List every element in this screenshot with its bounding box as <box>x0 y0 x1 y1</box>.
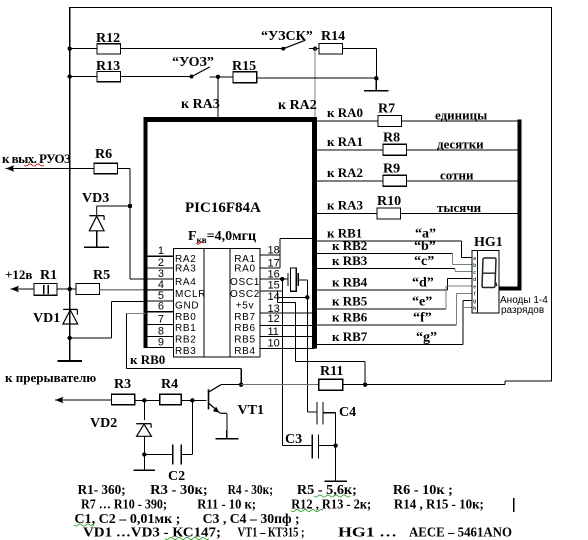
display HG1 digit <box>482 258 496 288</box>
svg-text:R1- 360;: R1- 360; <box>78 483 126 498</box>
wire rail к RB3 <box>317 268 455 270</box>
svg-text:g: g <box>473 299 476 305</box>
ground (VD3) <box>96 231 98 248</box>
wire <box>181 454 192 456</box>
pin 16 stub (OSC1) <box>260 278 288 280</box>
svg-text:“b”: “b” <box>414 239 436 254</box>
wire top supply rail <box>70 6 552 8</box>
junction C2/R4/base <box>190 398 194 402</box>
svg-text:a: a <box>473 256 476 262</box>
wire OSC2/+5v routing <box>276 291 278 303</box>
wire <box>343 384 506 386</box>
svg-text:RB4: RB4 <box>234 346 256 357</box>
svg-text:десятки: десятки <box>437 137 484 152</box>
capacitor C4 <box>316 402 318 424</box>
svg-text:RA0: RA0 <box>234 264 256 275</box>
wire jog <box>454 269 456 272</box>
ground (R14/R15 node) <box>375 78 377 91</box>
cursor mark <box>513 498 515 512</box>
svg-text:к RA3: к RA3 <box>327 198 364 213</box>
wire <box>11 288 35 290</box>
svg-text:c: c <box>473 270 476 276</box>
pin 2 stub <box>146 267 174 269</box>
resistor R15 <box>233 72 257 83</box>
svg-text:R7 … R10 - 390;: R7 … R10 - 390; <box>81 498 167 513</box>
svg-text:b: b <box>473 263 476 269</box>
svg-text:R4 - 30к;: R4 - 30к; <box>228 483 274 498</box>
wire <box>240 368 242 384</box>
svg-text:R1: R1 <box>40 268 57 283</box>
wire anode bus horizontal (thick) <box>499 286 522 290</box>
svg-text:к RB5: к RB5 <box>332 294 368 309</box>
svg-text:к RB6: к RB6 <box>332 310 368 325</box>
wire <box>335 413 337 482</box>
wire <box>294 303 296 362</box>
wire collector rail <box>221 384 241 386</box>
capacitor C2 <box>172 444 174 464</box>
svg-text:к RA3: к RA3 <box>181 97 220 112</box>
wire <box>343 48 377 50</box>
switch SA2 contact dot <box>281 47 285 51</box>
svg-text:Fкв=4,0мгц: Fкв=4,0мгц <box>188 229 256 245</box>
crystal ZQ1 <box>287 273 289 286</box>
svg-text:разрядов: разрядов <box>501 305 544 316</box>
svg-text:“УЗСК”: “УЗСК” <box>261 29 313 44</box>
svg-text:C3: C3 <box>285 432 302 447</box>
svg-text:R11: R11 <box>320 364 343 379</box>
svg-text:VD3: VD3 <box>82 191 109 206</box>
wire rail к RB7 <box>317 344 463 346</box>
svg-text:HG1: HG1 <box>474 235 503 250</box>
svg-text:“c”: “c” <box>414 254 434 269</box>
wire к RA3 drop <box>217 77 219 120</box>
wire rail к RA3 <box>317 213 520 215</box>
wire <box>307 411 317 413</box>
junction <box>68 74 72 78</box>
wire <box>97 205 130 207</box>
wire jog <box>461 241 463 258</box>
wire R5 to MCLR (gray) <box>100 289 174 291</box>
wire RB0 (gray) <box>126 313 145 315</box>
wire <box>125 314 127 369</box>
svg-text:+12в: +12в <box>5 267 32 282</box>
wire jog <box>452 254 454 265</box>
wire rail к RA1 <box>317 149 520 151</box>
svg-text:10: 10 <box>268 338 280 350</box>
wire <box>57 288 76 290</box>
resistor R7 <box>378 115 402 126</box>
wire to HG1 <box>455 270 472 272</box>
wire <box>375 49 377 91</box>
switch SA1 contact dot <box>190 75 194 79</box>
svg-text:7: 7 <box>158 314 164 326</box>
svg-text:RB7: RB7 <box>234 312 256 323</box>
wire <box>6 168 94 170</box>
resistor R1 (with element bars) <box>34 284 57 296</box>
junction C2/VD2 <box>142 452 146 456</box>
resistor R4 <box>160 394 182 405</box>
wire jog <box>504 381 506 385</box>
svg-text:R6: R6 <box>95 147 112 162</box>
pin 11 stub <box>260 336 315 338</box>
junction VD3 node <box>128 204 132 208</box>
wire rail к RA2 <box>317 180 520 182</box>
svg-text:MCLR: MCLR <box>175 289 206 300</box>
pin 9 stub <box>146 347 174 349</box>
svg-text:VD1 …VD3 - КС147;: VD1 …VD3 - КС147; <box>83 526 221 540</box>
arrow к прерывателю <box>55 397 64 403</box>
svg-text:RB5: RB5 <box>234 335 256 346</box>
resistor R14 <box>319 44 343 54</box>
wire jog <box>445 286 447 309</box>
svg-text:R8: R8 <box>383 131 400 146</box>
wire jog <box>456 294 458 325</box>
svg-text:АЕСЕ – 5461АNО: АЕСЕ – 5461АNО <box>409 526 512 540</box>
svg-text:f: f <box>474 292 476 298</box>
resistor R13 <box>97 71 121 81</box>
svg-text:RB1: RB1 <box>175 323 197 334</box>
svg-text:R4: R4 <box>161 377 178 392</box>
svg-text:R10: R10 <box>377 194 401 209</box>
wire <box>70 76 97 78</box>
op IC U1 PIC16F84A package outline <box>144 117 318 122</box>
svg-text:12: 12 <box>268 313 280 325</box>
zener diode VD2 <box>136 424 151 437</box>
svg-text:к прерывателю: к прерывателю <box>5 370 96 385</box>
wire <box>111 302 113 339</box>
wire <box>121 76 192 78</box>
pin 6 stub <box>146 311 174 313</box>
wire rail к RB5 <box>317 308 446 310</box>
wire <box>181 399 206 401</box>
svg-text:тысячи: тысячи <box>437 200 482 215</box>
svg-text:к RB4: к RB4 <box>332 275 368 290</box>
svg-text:VD1: VD1 <box>33 311 60 326</box>
svg-text:9: 9 <box>158 337 164 349</box>
wire right supply rail <box>551 7 553 382</box>
display HG1 body <box>472 250 499 313</box>
wire <box>135 399 160 401</box>
wire <box>210 76 233 78</box>
wire to HG1 <box>446 285 472 287</box>
pin 15 stub (OSC2) <box>260 290 282 292</box>
svg-text:“g”: “g” <box>416 330 437 345</box>
transistor VT1 <box>209 385 221 414</box>
wire anode bus (thick) <box>518 120 522 289</box>
svg-text:6: 6 <box>158 301 164 313</box>
wire OSC1 to C3 <box>281 279 283 446</box>
zener diode VD1 <box>63 309 78 324</box>
svg-text:R14: R14 <box>321 29 345 44</box>
svg-text:+5v: +5v <box>236 301 255 312</box>
svg-text:d: d <box>473 277 476 283</box>
resistor R12 <box>97 44 121 54</box>
svg-text:R7: R7 <box>378 102 395 117</box>
pin 18 stub <box>260 254 280 256</box>
svg-text:C2: C2 <box>168 469 185 484</box>
wire <box>55 399 111 401</box>
wire to HG1 <box>457 293 472 295</box>
junction VD1 anode <box>68 336 72 340</box>
svg-text:R3: R3 <box>114 377 131 392</box>
svg-text:HG1 …: HG1 … <box>338 526 397 540</box>
svg-text:VT1 – КТ315 ;: VT1 – КТ315 ; <box>238 526 305 540</box>
wire <box>226 413 228 439</box>
wire <box>70 48 97 50</box>
wire to HG1 <box>462 257 473 259</box>
junction <box>374 76 378 80</box>
pin 1 stub <box>146 255 174 257</box>
pin 12 stub <box>260 325 315 327</box>
junction node к RA2 <box>313 47 317 51</box>
svg-text:e: e <box>473 285 476 291</box>
wire <box>295 361 365 363</box>
junction C3/C4 <box>333 443 337 447</box>
arrow к вых. РУОЗ <box>6 165 15 171</box>
wire <box>319 445 336 447</box>
svg-text:к RB2: к RB2 <box>332 238 367 253</box>
wire <box>364 362 366 385</box>
wire jog <box>462 301 464 345</box>
resistor R8 <box>383 144 407 155</box>
wire to HG1 <box>463 300 472 302</box>
wire <box>143 436 145 470</box>
wire to RA4 pin <box>130 278 146 280</box>
resistor R11 <box>319 379 343 390</box>
wire left supply rail <box>69 7 71 361</box>
wire rail к RA0 <box>317 120 520 122</box>
ground (VD2) <box>143 460 145 470</box>
pin 13 stub <box>260 312 315 314</box>
svg-text:единицы: единицы <box>435 108 487 123</box>
pin 5 stub <box>146 300 174 302</box>
wire <box>220 412 227 414</box>
svg-text:“e”: “e” <box>412 295 432 310</box>
junction VD2 node <box>142 398 146 402</box>
spellcheck squiggles <box>314 495 350 497</box>
junction node к RA3 <box>216 75 220 79</box>
arrow +12в <box>11 286 20 292</box>
capacitor C3 <box>311 434 313 458</box>
ground (VT1 emitter) <box>226 430 228 439</box>
svg-text:“УОЗ”: “УОЗ” <box>172 55 214 70</box>
wire <box>126 367 241 369</box>
resistor R6 <box>94 163 118 174</box>
resistor R5 <box>76 284 100 295</box>
svg-text:R3 - 30к;: R3 - 30к; <box>150 483 208 498</box>
wire rail к RB2 <box>317 253 453 255</box>
wire <box>129 169 131 280</box>
svg-text:к RB3: к RB3 <box>332 253 368 268</box>
svg-text:PIC16F84A: PIC16F84A <box>185 200 261 216</box>
resistor R3 <box>111 394 134 405</box>
svg-text:RA4: RA4 <box>175 277 197 288</box>
svg-text:RB6: RB6 <box>234 323 256 334</box>
wire <box>298 279 307 281</box>
svg-text:к RA2: к RA2 <box>278 98 317 113</box>
pin 4 stub <box>146 289 174 291</box>
pin 10 stub <box>260 347 315 349</box>
junction +5v node <box>305 295 309 299</box>
svg-text:C4: C4 <box>339 405 356 420</box>
svg-text:15: 15 <box>268 280 280 292</box>
svg-text:к RA2: к RA2 <box>327 165 363 180</box>
wire <box>70 337 112 339</box>
zener diode VD3 <box>89 206 104 231</box>
junction R11 right node <box>363 383 367 387</box>
ground (VD1) <box>69 338 71 361</box>
svg-text:“f”: “f” <box>413 311 432 326</box>
ground (C3/C4) <box>335 460 337 481</box>
wire rail к RB4 <box>317 289 448 291</box>
svg-text:R11 - 10 к;: R11 - 10 к; <box>197 498 256 513</box>
resistor R10 <box>377 208 401 219</box>
svg-text:RB2: RB2 <box>175 335 197 346</box>
svg-text:сотни: сотни <box>440 168 474 183</box>
svg-text:к RA0: к RA0 <box>327 105 363 120</box>
svg-text:VT1: VT1 <box>238 403 264 418</box>
junction (+12в rail) <box>68 287 72 291</box>
svg-text:OSC2: OSC2 <box>230 289 260 300</box>
wire <box>323 412 336 414</box>
wire <box>277 302 295 304</box>
wire rail к RB6 <box>317 324 457 326</box>
wire to GND pin <box>112 301 146 303</box>
svg-text:h: h <box>473 306 476 312</box>
svg-text:GND: GND <box>175 301 199 312</box>
wire jog <box>447 278 449 290</box>
svg-text:RA3: RA3 <box>175 264 197 275</box>
svg-text:RB0: RB0 <box>175 312 197 323</box>
junction <box>68 47 72 51</box>
wire RA0/RA1 riser chain <box>279 239 281 268</box>
wire <box>282 445 312 447</box>
svg-text:RB3: RB3 <box>175 346 197 357</box>
svg-text:к RB0: к RB0 <box>130 352 165 367</box>
IC U1 pin-name box <box>174 248 261 357</box>
wire <box>309 48 319 50</box>
pin 17 stub <box>260 267 280 269</box>
svg-text:R14 , R15 - 10к;: R14 , R15 - 10к; <box>394 498 484 513</box>
pin 3 stub <box>146 278 174 280</box>
svg-text:R5: R5 <box>93 268 110 283</box>
wire <box>118 168 131 170</box>
wire collector rail (gray) <box>241 384 318 386</box>
wire <box>144 454 172 456</box>
wire HG1 pin h stub <box>463 307 472 309</box>
wire <box>191 400 193 454</box>
wire <box>143 400 145 420</box>
junction RB0/collector <box>239 383 243 387</box>
wire <box>257 77 377 79</box>
pin 14 wire (+5v) <box>277 296 307 298</box>
svg-text:к RA1: к RA1 <box>327 134 363 149</box>
pin 8 stub <box>146 336 174 338</box>
wire crystal to C4 <box>306 280 308 412</box>
resistor R9 <box>383 175 407 186</box>
svg-text:R9: R9 <box>383 162 400 177</box>
svg-text:R6 - 10к ;: R6 - 10к ; <box>393 483 453 498</box>
switch SA2 lever (УЗСК) <box>283 40 305 49</box>
svg-text:VD2: VD2 <box>90 416 117 431</box>
wire to HG1 <box>448 277 472 279</box>
wire to HG1 <box>453 263 472 265</box>
svg-text:“d”: “d” <box>412 276 434 291</box>
wire rail к RB1 <box>317 240 462 242</box>
junction OSC1/C3 <box>280 277 284 281</box>
wire to right rail <box>505 380 552 382</box>
svg-text:к RB7: к RB7 <box>332 329 368 344</box>
svg-text:OSC1: OSC1 <box>230 277 260 288</box>
wire <box>121 48 284 50</box>
pin 7 stub <box>146 324 174 326</box>
svg-text:1: 1 <box>158 245 164 257</box>
wire к RA2 drop (gray) <box>314 49 316 120</box>
switch SA1 lever (УОЗ) <box>192 67 210 77</box>
svg-text:к вых. РУОЗ: к вых. РУОЗ <box>2 151 71 166</box>
